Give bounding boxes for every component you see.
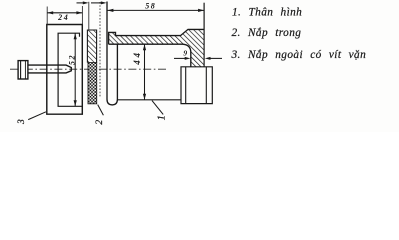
thin line x=100 [99,2,101,97]
top small dim arrows [77,2,85,4]
dim 24 extension lines [46,7,48,25]
outer cap 3 inner cavity [58,33,82,106]
svg-text:1: 1 [157,115,168,120]
inner cap 2 hatched upper part [87,30,96,63]
svg-text:2: 2 [95,120,105,125]
dim 58 line with arrows [107,9,204,11]
bolt shaft [28,65,71,73]
svg-text:1. Thân hình: 1. Thân hình [232,7,302,19]
centerline [10,68,166,70]
svg-text:2. Nắp trong: 2. Nắp trong [232,27,302,39]
svg-text:3. Nắp ngoài có vít vặn: 3. Nắp ngoài có vít vặn [231,49,367,61]
body 1 bottom edge [117,99,181,101]
svg-text:24: 24 [57,13,69,22]
extension line of cap 2 top [88,2,90,30]
leader 1 [152,101,163,115]
right boss cylinder [181,67,212,104]
body 1 top wall edges [109,29,205,44]
svg-text:3: 3 [17,119,27,125]
dim 52 line with arrows [74,33,76,106]
svg-text:52: 52 [68,54,77,65]
bolt head [18,61,28,79]
dim 9 arrows [174,57,187,59]
svg-text:58: 58 [145,2,156,11]
svg-text:9: 9 [183,48,187,57]
svg-text:44: 44 [132,50,142,66]
inner cap 2 checkered lower part [88,63,97,104]
body 1 left face and neck U [107,2,117,105]
outer cap 3 outline [47,25,83,115]
body 1 top wall hatch [109,29,205,66]
dim 44 line with arrows [144,44,146,100]
leader 3 [28,112,46,120]
body 1 right edge / 58 extension [203,3,205,67]
dim 24 line with arrows [47,12,82,14]
leader 2 [98,105,104,116]
